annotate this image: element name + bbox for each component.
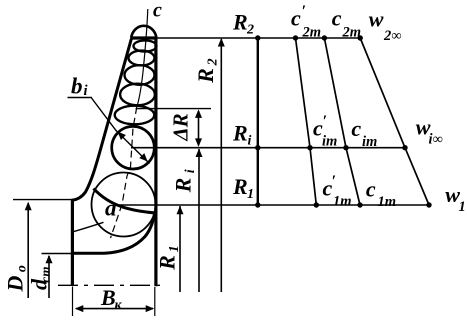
arrowhead Bk right (146, 305, 155, 312)
Do extension line (13, 199, 71, 201)
svg-text:ΔR: ΔR (169, 113, 193, 141)
Ri dimension arrow line (198, 149, 200, 292)
node dot Ri-vert (255, 145, 260, 150)
node dot c bottom (357, 202, 362, 207)
svg-text:c: c (153, 0, 162, 22)
node dot c top (322, 35, 327, 40)
node dot c-prime bottom (314, 202, 319, 207)
R2 level line (157, 37, 360, 39)
velocity diagram vertical line (257, 38, 259, 205)
a circle (92, 173, 156, 237)
Bk dimension arrow line (76, 308, 153, 310)
centerline dash-dot (58, 284, 163, 286)
c-prime velocity line (296, 38, 317, 205)
arrowhead R2 up (218, 38, 225, 47)
impeller shroud slant and curve (72, 39, 131, 200)
b_i leader line (92, 98, 150, 164)
d_ct dimension arrow line (48, 256, 50, 298)
arrowhead deltaR top up (195, 109, 202, 118)
channel ellipse 2 (129, 51, 155, 66)
channel ellipse 4 (120, 84, 155, 106)
blade thick curve (94, 189, 157, 214)
w velocity line (360, 38, 429, 205)
impeller hub contour (71, 212, 155, 254)
node dot c-prime mid (307, 145, 312, 150)
node dot w bottom (426, 202, 431, 207)
arrowhead Do up (25, 202, 32, 211)
mean line dashed lower (111, 107, 137, 238)
arrowhead b_i upper-left diagonal (118, 132, 126, 140)
channel ellipse 3 (125, 65, 155, 85)
impeller cap base thick line (R2 rim) (130, 36, 157, 39)
channel ellipse 5 (115, 106, 155, 125)
R1 dimension arrow line (179, 206, 181, 292)
node dot c-prime top (293, 35, 298, 40)
node dot c mid (343, 145, 348, 150)
impeller left edge (71, 199, 74, 286)
R1 level line (117, 204, 429, 206)
impeller right edge (154, 38, 157, 286)
Ri level line (131, 147, 405, 149)
deltaR dimension double arrow line (198, 111, 200, 145)
arrowhead Bk left (75, 305, 84, 312)
c velocity line (324, 38, 360, 205)
mean line solid upper (137, 9, 148, 107)
b_i label underline (68, 97, 93, 99)
node dot R1-vert (255, 202, 260, 207)
node dot R2-vert (255, 35, 260, 40)
node dot w mid (402, 145, 407, 150)
second blade thin curve (73, 222, 104, 232)
Bk left extension (72, 287, 74, 317)
svg-text:a: a (105, 196, 117, 221)
d_ct extension line (42, 253, 73, 255)
node dot w top (358, 35, 363, 40)
arrowhead Ri up (196, 149, 203, 158)
b_i circle (112, 126, 155, 169)
Bk right extension (154, 287, 156, 316)
arrowhead R1 up (177, 206, 184, 215)
arrowhead b_i lower-right diagonal (139, 153, 147, 161)
R2 dimension arrow line (220, 39, 222, 292)
arrowhead deltaR bottom down (195, 138, 202, 147)
R(i+1) extension line (136, 108, 211, 110)
arrowhead d_ct up (46, 255, 53, 263)
impeller dome cap (131, 26, 156, 38)
channel ellipse 1 (134, 40, 157, 51)
Do dimension arrow line (27, 203, 29, 298)
